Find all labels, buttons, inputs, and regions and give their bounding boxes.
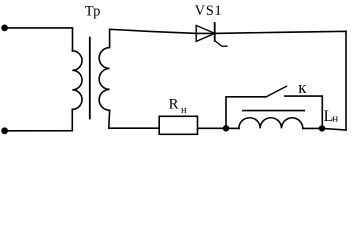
switch K fixed contact xyxy=(285,96,323,128)
wire resistor to node A xyxy=(198,127,227,129)
node A junction dot xyxy=(223,125,229,131)
wire node B to right corner xyxy=(322,128,346,130)
thyristor VS1 cathode bar xyxy=(214,23,216,41)
svg-text:Тр: Тр xyxy=(85,4,101,20)
thyristor VS1 anode wire xyxy=(196,32,215,34)
wire top right xyxy=(215,31,346,33)
svg-text:к: к xyxy=(298,78,307,97)
wire right vertical xyxy=(345,31,347,130)
svg-text:VS1: VS1 xyxy=(195,3,223,19)
thyristor VS1 gate lead xyxy=(215,41,227,46)
wire node A to inductor xyxy=(226,127,239,129)
node B junction dot xyxy=(319,125,325,131)
transformer Tp core xyxy=(89,38,91,119)
wire secondary bottom xyxy=(109,110,159,128)
switch K blade xyxy=(266,86,286,97)
transformer T1 secondary winding xyxy=(99,48,109,111)
svg-text:R: R xyxy=(169,97,179,113)
svg-text:н: н xyxy=(181,105,187,116)
wire inductor to node B xyxy=(303,127,322,129)
inductor Ln winding xyxy=(239,118,303,129)
terminal top-left xyxy=(1,25,8,32)
wire bottom-left input xyxy=(5,109,73,131)
transformer T1 primary winding xyxy=(72,51,82,110)
inductor Ln core line xyxy=(243,110,304,112)
resistor Rn body xyxy=(159,116,197,134)
switch K left riser xyxy=(226,97,266,129)
thyristor VS1 triangle xyxy=(196,25,215,41)
wire secondary top xyxy=(110,29,197,47)
svg-text:н: н xyxy=(332,113,338,125)
terminal bottom-left xyxy=(1,127,8,134)
wire top-left input xyxy=(5,28,73,51)
